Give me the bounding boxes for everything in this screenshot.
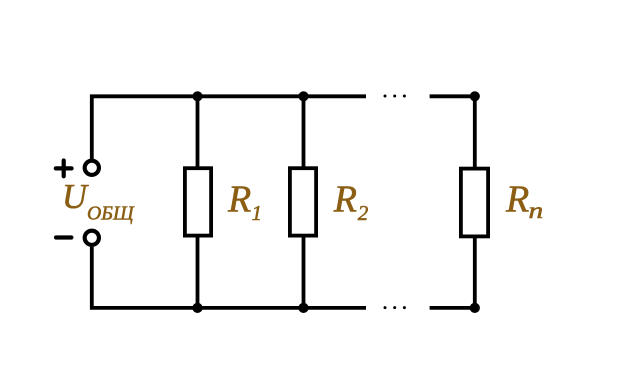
svg-text:R: R: [505, 179, 529, 221]
svg-text:R: R: [333, 179, 357, 221]
svg-text:ОБЩ: ОБЩ: [87, 203, 135, 225]
svg-text:U: U: [62, 178, 89, 216]
svg-text:n: n: [529, 197, 544, 223]
svg-text:2: 2: [358, 201, 369, 225]
svg-text:1: 1: [252, 201, 263, 225]
svg-text:R: R: [227, 179, 251, 221]
